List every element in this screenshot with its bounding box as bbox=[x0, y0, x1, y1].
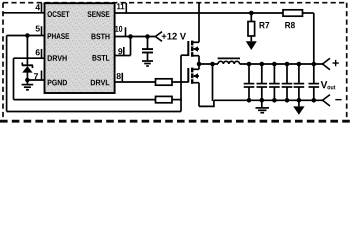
label 9 bbox=[118, 48, 122, 54]
output - connector bbox=[323, 95, 331, 106]
wire inductor to + output bbox=[240, 63, 323, 65]
bus B bbox=[14, 99, 156, 101]
vertical pin5-node to zener bbox=[26, 36, 28, 66]
node dot riser tap bbox=[210, 62, 215, 67]
capacitor C3 bbox=[257, 62, 268, 103]
capacitor C6 bbox=[294, 62, 305, 103]
pin numbers bbox=[0, 0, 1, 1]
capacitor C5 bbox=[282, 62, 293, 103]
Q1 source to phase node bbox=[198, 56, 200, 64]
label + bbox=[333, 60, 339, 66]
IC pin labels bbox=[0, 0, 1, 1]
bus A (bottom) bbox=[7, 111, 181, 113]
wire pin8 DRVL bbox=[115, 81, 156, 83]
wire pin6 drop (to bus B) bbox=[13, 58, 15, 99]
high-side gate lead bbox=[181, 54, 188, 56]
node dot R7 tap bbox=[249, 11, 254, 16]
power arrow down under rail bbox=[293, 100, 304, 115]
ground G1 bbox=[22, 85, 34, 90]
label R8 bbox=[285, 22, 295, 28]
label BSTL bbox=[92, 55, 109, 61]
label PHASE bbox=[48, 33, 70, 39]
label 4 bbox=[35, 4, 40, 10]
+12V connector bbox=[155, 32, 162, 42]
node dot cap tap bbox=[145, 34, 150, 39]
label PGND bbox=[48, 80, 67, 86]
wire pin6 DRVH bbox=[14, 57, 45, 59]
resistor R7 bbox=[246, 13, 257, 50]
R8 drop to output bbox=[313, 13, 315, 64]
label 5 bbox=[36, 26, 40, 32]
label OCSET bbox=[47, 11, 69, 17]
Q2 source down bbox=[198, 83, 200, 107]
capacitor C1 bootstrap decoupling bbox=[142, 37, 153, 61]
transistor Q2 low-side MOSFET bbox=[188, 68, 199, 84]
wire pin4 OCSET bbox=[3, 12, 45, 14]
label BSTH bbox=[91, 34, 109, 40]
zener diode bbox=[22, 63, 33, 73]
label +12 V bbox=[162, 33, 186, 40]
wire pin7 PGND bbox=[27, 79, 44, 81]
phase wire to inductor bbox=[199, 63, 218, 65]
output ground rail bbox=[214, 99, 323, 101]
bottom dashed separator line bbox=[0, 120, 350, 123]
label R7 bbox=[260, 22, 270, 28]
ground G2 bbox=[142, 61, 153, 66]
label DRVH bbox=[48, 55, 67, 61]
resistor R8 series in top wire bbox=[283, 10, 303, 16]
dashed border box bbox=[3, 3, 347, 120]
label 11 bbox=[117, 3, 124, 9]
label 10 bbox=[115, 26, 122, 32]
capacitor C4 bbox=[269, 62, 280, 103]
ground G3 under rail bbox=[256, 100, 270, 112]
label 8 bbox=[117, 73, 121, 79]
Q2 drain to phase node bbox=[198, 64, 200, 69]
phase sense riser bbox=[212, 64, 214, 101]
inductor L1 bbox=[218, 58, 240, 64]
pin tick marks bbox=[42, 3, 127, 82]
wire pin11 SENSE top bus bbox=[115, 12, 283, 14]
output + connector bbox=[323, 58, 331, 69]
wire pin9 BSTL bbox=[115, 55, 131, 57]
label V bbox=[321, 81, 328, 88]
resistor (series in bus B) bbox=[156, 96, 173, 102]
IC body bbox=[45, 3, 115, 93]
node dot on pin5 wire bbox=[25, 33, 30, 38]
label 7 bbox=[34, 73, 38, 79]
resistor (series in DRVL) bbox=[156, 79, 173, 85]
label 6 bbox=[36, 49, 40, 55]
node dot pin9 riser bbox=[128, 34, 133, 39]
wire pin5 drop (left, to bus A) bbox=[6, 36, 8, 112]
wire pin10 BSTH bbox=[115, 36, 156, 38]
node dot pin7 bbox=[25, 78, 30, 83]
transistor Q1 high-side MOSFET bbox=[188, 41, 199, 57]
label SENSE bbox=[87, 11, 109, 17]
source jog to output rail bbox=[199, 100, 214, 106]
zener anode lead bbox=[26, 72, 28, 84]
label DRVL bbox=[91, 80, 110, 86]
wire resistor to gate-feed vertical bbox=[172, 99, 182, 101]
+Vin drop from top border bbox=[198, 3, 200, 43]
capacitor C2 bbox=[244, 62, 255, 103]
label out bbox=[327, 85, 335, 89]
wire pin5 PHASE bbox=[7, 35, 45, 37]
label minus bbox=[335, 99, 341, 100]
node dot phase bbox=[197, 62, 202, 67]
capacitor C7 (under R8 drop) bbox=[309, 62, 320, 103]
gate feed vertical x=181 bbox=[180, 55, 182, 111]
